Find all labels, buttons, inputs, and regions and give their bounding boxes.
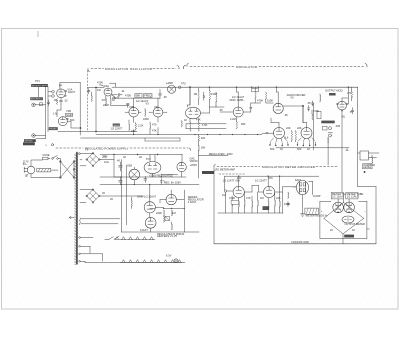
component box C12 bbox=[252, 88, 259, 92]
wire plug bottom bbox=[31, 174, 60, 178]
resistor RM6 bbox=[268, 201, 269, 208]
wire V6 out to V7 bbox=[243, 103, 273, 112]
svg-text:MODULATOR: MODULATOR bbox=[236, 65, 258, 69]
capacitor C9 bbox=[250, 105, 252, 111]
svg-text:47K: 47K bbox=[246, 196, 251, 200]
wire left to bus bbox=[87, 87, 96, 89]
wire -105V feed bbox=[199, 152, 234, 156]
value box R10 bbox=[135, 94, 142, 98]
dark box 6AQ5 label bbox=[329, 93, 336, 96]
filament string 2 bbox=[120, 254, 182, 263]
node right bbox=[364, 171, 365, 172]
node junction bbox=[189, 87, 190, 88]
svg-text:V3: V3 bbox=[146, 102, 150, 106]
capacitor C3 right of V3 bbox=[112, 93, 122, 99]
wire to V2 bbox=[57, 104, 61, 117]
wire mod bottom bus A bbox=[186, 123, 226, 125]
capacitor C22 electrolytic bbox=[119, 178, 123, 185]
fuse block hatched bbox=[37, 168, 51, 172]
text scattered values C bbox=[85, 148, 176, 233]
wire jack to bus bbox=[39, 87, 49, 97]
wire bridge bottom bbox=[343, 229, 369, 244]
svg-text:47K: 47K bbox=[152, 129, 157, 133]
svg-text:100K: 100K bbox=[267, 99, 273, 103]
svg-text:GAIN 1/2 12AX7: GAIN 1/2 12AX7 bbox=[137, 195, 157, 199]
svg-text:EXT MOD: EXT MOD bbox=[25, 141, 33, 143]
svg-text:22K: 22K bbox=[297, 126, 302, 130]
svg-text:REG. B+ 105V: REG. B+ 105V bbox=[164, 181, 181, 185]
bridge diamond bbox=[324, 203, 364, 234]
wire meter amp mid bus bbox=[218, 212, 283, 214]
svg-text:COMP: COMP bbox=[313, 194, 321, 198]
wire right vertical long bbox=[357, 87, 359, 186]
resistor R14 below V4A bbox=[135, 123, 143, 131]
resistor R30 between outputs bbox=[295, 131, 296, 142]
svg-text:22K: 22K bbox=[237, 176, 242, 180]
pin resistors V8 bbox=[269, 138, 288, 146]
node meter bus bbox=[238, 176, 280, 177]
wire output cathode bus bbox=[276, 148, 349, 150]
bridge rectifier CR2 bbox=[86, 189, 100, 203]
wire V17 to V18 bbox=[239, 176, 269, 192]
meter bridge box bbox=[320, 201, 367, 238]
resistor RM5 bbox=[258, 200, 259, 207]
resistor R34 bbox=[320, 94, 321, 102]
tube V13 bbox=[177, 155, 186, 178]
tube V16 bbox=[145, 217, 156, 228]
resistor RM2 bbox=[239, 201, 240, 208]
resistor R29 between outputs bbox=[291, 131, 292, 142]
resistor RM4 bbox=[252, 201, 253, 208]
svg-text:.25: .25 bbox=[163, 95, 167, 99]
capacitor C2 input bbox=[88, 89, 90, 94]
resistor R16 bbox=[181, 121, 182, 128]
box bridge label 2 bbox=[346, 192, 364, 199]
wire osc bottom bus 3 bbox=[81, 137, 181, 139]
capacitor C21 electrolytic bbox=[117, 159, 122, 172]
svg-text:.02: .02 bbox=[64, 99, 68, 103]
svg-text:LAMP: LAMP bbox=[166, 81, 173, 85]
svg-text:10K: 10K bbox=[201, 146, 206, 150]
wire winding to CR2 bbox=[80, 190, 93, 203]
pin resistors V9 bbox=[297, 138, 316, 146]
tube V2 1/2 12AX7 bbox=[58, 109, 71, 126]
svg-text:470: 470 bbox=[102, 98, 107, 102]
svg-text:FREQ: FREQ bbox=[144, 94, 151, 98]
svg-text:TP1: TP1 bbox=[35, 79, 40, 83]
box attenuator bbox=[40, 103, 43, 106]
node PS top bbox=[113, 154, 158, 155]
svg-text:1800: 1800 bbox=[143, 117, 149, 121]
wire winding to CR1 bbox=[80, 153, 93, 166]
transformer T1 secondary winding bbox=[75, 153, 78, 265]
text VR tube labels bbox=[190, 157, 198, 168]
value box R11 bbox=[144, 94, 153, 98]
svg-text:60∽: 60∽ bbox=[23, 162, 29, 166]
resistor R28 bbox=[312, 110, 313, 120]
svg-text:200: 200 bbox=[102, 155, 107, 159]
svg-text:1M: 1M bbox=[97, 88, 101, 92]
small box right of amp label bbox=[363, 163, 376, 169]
svg-text:1/2 12AT7: 1/2 12AT7 bbox=[255, 178, 267, 182]
wire input vertical bus bbox=[45, 87, 47, 139]
svg-text:V5: V5 bbox=[290, 96, 294, 100]
svg-text:VR150: VR150 bbox=[190, 159, 198, 163]
resistor R5 grid diagonal bbox=[97, 81, 104, 87]
svg-text:OUTPUT MOD.: OUTPUT MOD. bbox=[325, 89, 343, 93]
wire modulator top bus bbox=[190, 86, 358, 88]
wire osc bottom box bbox=[145, 138, 180, 141]
wire osc tank top bbox=[112, 86, 190, 88]
socket V19 6AL5 bbox=[294, 180, 313, 194]
svg-text:1K: 1K bbox=[330, 228, 333, 232]
svg-text:+250V: +250V bbox=[190, 163, 198, 167]
wire PS bus B+ bbox=[100, 184, 199, 186]
svg-text:22K: 22K bbox=[201, 136, 206, 140]
tube V3 oscillator 1/2 12AT7 bbox=[104, 84, 112, 96]
svg-text:TO METER AMP: TO METER AMP bbox=[216, 167, 236, 171]
svg-text:470K: 470K bbox=[313, 109, 319, 113]
text regulator labels bbox=[137, 195, 204, 205]
svg-text:V1B: V1B bbox=[66, 109, 71, 113]
switch S1 MOD SELECTOR box bbox=[30, 97, 43, 100]
resistor RM8 bbox=[279, 201, 280, 208]
switch S2 bbox=[52, 156, 61, 163]
tube V17 meter amp bbox=[233, 186, 244, 197]
node grid bbox=[95, 87, 96, 88]
wire drop ladder bbox=[226, 176, 283, 213]
capacitor C1b bbox=[47, 100, 49, 106]
svg-text:.05: .05 bbox=[284, 113, 288, 117]
tube V4B bbox=[153, 107, 163, 117]
node V7 out bbox=[302, 105, 303, 106]
AC plug P1 bbox=[23, 160, 35, 177]
svg-text:220K: 220K bbox=[103, 103, 109, 107]
tube V15 bbox=[166, 194, 176, 204]
box PHONES bbox=[49, 127, 58, 130]
meter M1 bbox=[342, 216, 365, 226]
resistor R1 below V1 bbox=[54, 98, 58, 105]
wire meter amp feed bbox=[358, 187, 376, 244]
wire V11 bottom drop bbox=[133, 183, 135, 185]
tube V6 bbox=[233, 107, 243, 117]
svg-text:2.2K: 2.2K bbox=[138, 124, 144, 128]
svg-text:1/2 12AU7: 1/2 12AU7 bbox=[332, 195, 345, 199]
resistor R33 left bbox=[131, 197, 132, 209]
svg-text:V3A: V3A bbox=[154, 105, 159, 109]
wire V18 to socket bbox=[275, 187, 297, 192]
resistor R2 1M bbox=[53, 112, 57, 116]
ground symbol bbox=[301, 214, 305, 216]
terminal circles bbox=[329, 127, 332, 130]
wire osc aux bbox=[111, 104, 129, 106]
tap node top bbox=[78, 153, 80, 155]
resistor R32 right bbox=[372, 155, 373, 164]
svg-text:6AL5: 6AL5 bbox=[295, 178, 302, 182]
section header MODULATION METER AMPLIFIER bbox=[214, 165, 337, 170]
svg-text:REGULATED POWER SUPPLY: REGULATED POWER SUPPLY bbox=[85, 147, 129, 151]
capacitor CM1 bbox=[287, 202, 289, 207]
wire V5 plate drop bbox=[188, 87, 191, 107]
capacitor C0 plate bbox=[59, 85, 61, 86]
svg-text:METER READS %: METER READS % bbox=[306, 214, 328, 218]
capacitor C13 bbox=[312, 101, 314, 106]
wire grid left bbox=[96, 88, 104, 132]
node osc input bbox=[80, 127, 81, 128]
svg-text:1K: 1K bbox=[280, 147, 283, 151]
svg-text:68K: 68K bbox=[136, 94, 141, 98]
resistor R24 below V5 right bbox=[198, 119, 199, 131]
tube V4A bbox=[129, 107, 139, 117]
tube V8 output A bbox=[274, 128, 285, 139]
resistor R26 bbox=[255, 87, 256, 102]
svg-text:560: 560 bbox=[270, 147, 275, 151]
dashed border segment bbox=[219, 173, 245, 175]
hatched box MODULATION label bbox=[305, 208, 328, 218]
svg-text:REGULATED −105V: REGULATED −105V bbox=[209, 152, 233, 156]
svg-text:MODULATION OSCILLATOR: MODULATION OSCILLATOR bbox=[105, 67, 153, 71]
wire PS bottom bus bbox=[121, 231, 199, 233]
box RANGE switch bbox=[113, 124, 120, 127]
capacitor C20 bbox=[144, 176, 147, 182]
svg-text:470K: 470K bbox=[229, 196, 235, 200]
resistor R7 bbox=[110, 96, 115, 106]
wire socket down bbox=[302, 195, 304, 214]
svg-text:.05: .05 bbox=[307, 101, 311, 105]
wire V2 out bbox=[67, 121, 80, 128]
wire output box left bbox=[314, 104, 329, 151]
resistor R21 grid bbox=[194, 88, 200, 105]
svg-text:OUTPUT METER: OUTPUT METER bbox=[345, 222, 366, 226]
wire grid feed bbox=[48, 87, 52, 131]
dashed section border left bbox=[86, 71, 88, 132]
faint corner mark bbox=[37, 32, 39, 37]
resistor R8 diagonal bbox=[111, 95, 115, 98]
bridge rectifier CR1 bbox=[86, 152, 100, 166]
wire tap4 heater bus bbox=[80, 261, 185, 262]
svg-text:1K: 1K bbox=[184, 118, 187, 122]
svg-text:470K: 470K bbox=[257, 99, 263, 103]
input jack box EXT MODULATION bbox=[31, 79, 48, 88]
resistor R30 bbox=[164, 210, 165, 222]
wire V10 cathode down bbox=[341, 111, 343, 194]
resistor R6 cathode bbox=[102, 96, 107, 106]
wire phones line bbox=[48, 130, 81, 133]
capacitor C14 grid bbox=[262, 133, 274, 134]
wire V4B plate bbox=[157, 98, 159, 107]
capacitor C11 bbox=[351, 108, 354, 114]
svg-text:1K: 1K bbox=[307, 147, 310, 151]
resistor R15 below V4B bbox=[150, 122, 157, 129]
wire tap1 bbox=[80, 237, 93, 239]
jack J2 bbox=[32, 134, 46, 138]
fuse F1 bbox=[40, 153, 50, 160]
wire V10 plate bbox=[342, 87, 348, 104]
svg-text:6L6: 6L6 bbox=[284, 135, 289, 139]
svg-text:V2A: V2A bbox=[104, 84, 109, 88]
heater winding W3 bbox=[79, 218, 120, 225]
component box X3 bbox=[323, 126, 328, 130]
text scattered values D bbox=[222, 193, 366, 232]
svg-text:1/2 12AT7: 1/2 12AT7 bbox=[111, 127, 123, 131]
wire V3 plate top bbox=[110, 83, 116, 87]
wire tap2 bbox=[80, 246, 90, 253]
resistor R23 below V5 left bbox=[190, 119, 191, 131]
svg-text:1 M: 1 M bbox=[53, 112, 57, 116]
svg-text:680: 680 bbox=[241, 122, 246, 126]
wire oscillator left vertical bbox=[79, 82, 81, 135]
node bus 2 bbox=[133, 134, 258, 135]
wire meter left vert bbox=[213, 168, 215, 244]
node bus junctions bbox=[209, 87, 349, 88]
section header MODULATION OSCILLATOR bbox=[88, 65, 186, 71]
svg-text:FUSE: FUSE bbox=[43, 153, 50, 157]
text scattered values A bbox=[196, 91, 352, 151]
tube V5 dual triode bbox=[186, 107, 201, 119]
svg-text:470K: 470K bbox=[125, 94, 131, 98]
wire V4A plate bbox=[133, 98, 135, 107]
wire meter amp bottom bus bbox=[214, 243, 376, 245]
jack box EXT MOD bottom bbox=[24, 139, 36, 142]
svg-text:470: 470 bbox=[152, 123, 157, 127]
wire CR2 out bbox=[100, 195, 143, 197]
bridge lamp tube A bbox=[333, 202, 344, 213]
resistor RM7 bbox=[275, 200, 276, 207]
svg-text:470K: 470K bbox=[97, 81, 103, 85]
component box X2 bbox=[317, 111, 321, 119]
svg-text:47K: 47K bbox=[268, 176, 273, 180]
resistor RM1 bbox=[232, 200, 233, 207]
svg-text:LEVEL: LEVEL bbox=[363, 165, 372, 169]
tube V9 output B bbox=[301, 128, 312, 139]
tube V7 bbox=[273, 103, 283, 113]
tube V14 bbox=[144, 202, 155, 213]
relay box K1 bbox=[358, 151, 379, 160]
svg-text:22K: 22K bbox=[286, 126, 291, 130]
wire PS bus 250V bbox=[100, 175, 186, 178]
jack J1 bbox=[32, 103, 46, 107]
wire -105V vertical bbox=[198, 134, 205, 178]
capacitor C23 plus bbox=[160, 179, 165, 185]
svg-text:470: 470 bbox=[112, 96, 117, 100]
resistor R13 below V4A bbox=[129, 123, 130, 131]
resistor R27a bbox=[266, 92, 267, 103]
svg-text:RANGE: RANGE bbox=[113, 124, 120, 127]
wire V5 to V6 bbox=[201, 106, 234, 113]
svg-text:MOD SELECT: MOD SELECT bbox=[31, 99, 42, 101]
wire CR1 out bbox=[100, 159, 114, 161]
resistor R20 plate load bbox=[209, 87, 217, 107]
capacitor C10 bbox=[308, 106, 310, 112]
text osc tube labels bbox=[125, 94, 149, 106]
text AUDIO DRIVER bbox=[287, 93, 306, 100]
svg-text:.005: .005 bbox=[335, 124, 341, 128]
svg-text:270: 270 bbox=[347, 91, 352, 95]
svg-text:.01: .01 bbox=[121, 89, 125, 93]
svg-text:PHONES: PHONES bbox=[49, 129, 57, 131]
resistor RM3 bbox=[244, 200, 245, 207]
transformer T1 primary bbox=[59, 161, 75, 179]
value box near V2 bbox=[66, 113, 73, 117]
section header MODULATOR bbox=[187, 64, 367, 70]
dark box TO METER bbox=[202, 167, 235, 174]
wire tap3 bbox=[80, 254, 102, 261]
chassis arrow bbox=[69, 216, 74, 218]
tube V1A 1/2 12AX7 bbox=[52, 88, 76, 98]
svg-text:47K: 47K bbox=[196, 118, 201, 122]
wire mod bottom bus B bbox=[186, 124, 226, 129]
dark box INTERLOCK bbox=[321, 121, 334, 124]
wire V17 input bbox=[225, 176, 234, 191]
wire osc bottom bus 1 bbox=[81, 131, 138, 133]
resistor RM9 bbox=[288, 192, 289, 199]
svg-text:2.2M: 2.2M bbox=[230, 117, 236, 121]
svg-text:1M: 1M bbox=[172, 211, 176, 215]
resistor R4 input bbox=[91, 92, 92, 102]
svg-text:22K: 22K bbox=[276, 196, 281, 200]
wire PS left verticals bbox=[114, 160, 126, 233]
svg-text:1K: 1K bbox=[352, 228, 355, 232]
svg-text:1M: 1M bbox=[260, 196, 264, 200]
node PS bus dots bbox=[121, 176, 162, 185]
resistor R12 between tubes bbox=[145, 109, 146, 117]
wire V4 cathode drops bbox=[134, 128, 158, 135]
text meter amp tube labels bbox=[223, 176, 302, 183]
svg-text:OB2: OB2 bbox=[127, 164, 133, 168]
svg-text:REGULATED B MINUS: REGULATED B MINUS bbox=[157, 232, 184, 236]
svg-text:V2B: V2B bbox=[129, 105, 134, 109]
section header REGULATED POWER SUPPLY bbox=[56, 147, 190, 151]
resistor R31 bbox=[348, 87, 352, 101]
svg-text:1M: 1M bbox=[194, 92, 198, 96]
wire V1 plate up bbox=[60, 82, 80, 89]
wire reg interconnect bbox=[150, 185, 185, 233]
svg-text:2 6AS7: 2 6AS7 bbox=[188, 200, 197, 204]
tube V12 5Y3 wide bbox=[144, 155, 161, 178]
wire meter amp top bus bbox=[225, 175, 319, 177]
capacitor C1 below V1 bbox=[60, 98, 69, 104]
svg-text:220K: 220K bbox=[156, 211, 162, 215]
wire V4A cathode down bbox=[129, 117, 158, 123]
bridge lamp tube B bbox=[344, 202, 355, 213]
dark box 600ohm bbox=[23, 142, 35, 145]
box bridge label 1 bbox=[331, 192, 349, 199]
svg-text:6.3V: 6.3V bbox=[166, 254, 172, 258]
svg-text:1M: 1M bbox=[222, 193, 226, 197]
value box CAL2 bbox=[263, 206, 270, 210]
svg-text:5Y3: 5Y3 bbox=[146, 157, 151, 161]
wire interstage bbox=[125, 111, 167, 113]
input terminal bbox=[224, 190, 226, 192]
wire output grid feeds bbox=[271, 107, 307, 128]
dark box zero set bbox=[344, 235, 354, 238]
svg-text:100K: 100K bbox=[284, 202, 290, 206]
svg-text:1.5K: 1.5K bbox=[202, 123, 208, 127]
svg-text:12AX7: 12AX7 bbox=[140, 228, 148, 232]
resistor R22 bbox=[216, 92, 217, 106]
wire V7 plate bbox=[276, 87, 278, 103]
svg-text:CHASSIS GND: CHASSIS GND bbox=[291, 240, 309, 244]
wire plug top bbox=[31, 160, 40, 166]
text scattered values B bbox=[97, 81, 187, 133]
svg-text:12AX7: 12AX7 bbox=[68, 90, 76, 94]
tube V10 modulator output bbox=[337, 101, 348, 111]
svg-text:.01: .01 bbox=[116, 96, 120, 100]
wire fuse box out bbox=[51, 169, 58, 171]
node bus bbox=[95, 131, 96, 132]
svg-text:MODULATION METER AMPLIFIER: MODULATION METER AMPLIFIER bbox=[262, 165, 316, 169]
capacitor C4 trimmer bbox=[159, 90, 162, 99]
